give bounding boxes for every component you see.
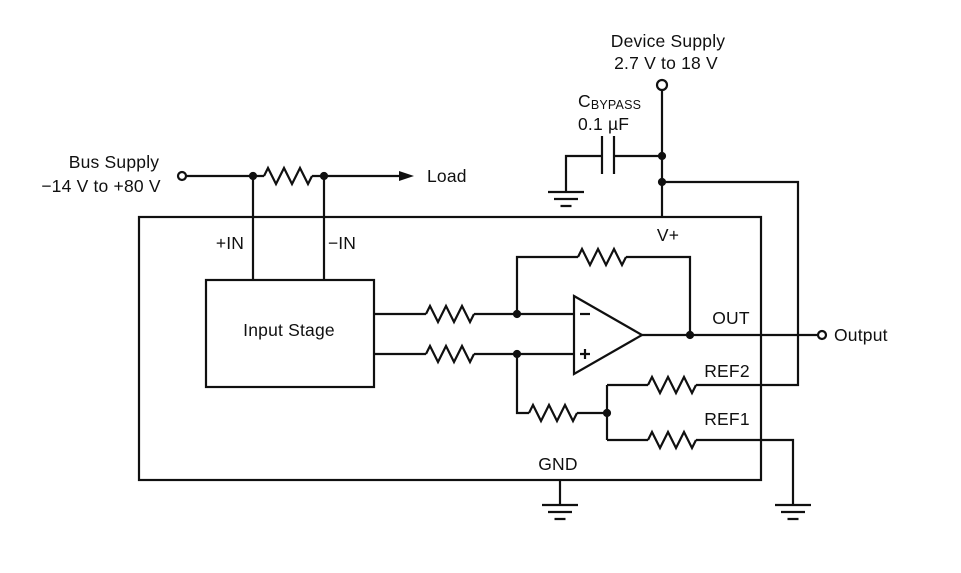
svg-text:V+: V+ (657, 225, 679, 245)
terminal: Bus Supply input (178, 172, 186, 180)
node: minus input (513, 310, 521, 318)
label: +IN (216, 233, 244, 253)
label: Output (834, 325, 888, 345)
wire: feedback right leg (626, 257, 690, 335)
label: 2.7 V to 18 V (614, 53, 718, 73)
wire: ref junction vertical (606, 385, 608, 440)
block: Input Stage (206, 280, 374, 387)
node: -IN bus junction (320, 172, 328, 180)
label: REF1 (704, 409, 750, 429)
svg-text:+IN: +IN (216, 233, 244, 253)
wire: Rref to ref junction (577, 412, 607, 414)
svg-text:Device Supply: Device Supply (611, 31, 726, 51)
svg-text:Input Stage: Input Stage (243, 320, 335, 340)
wire: R- to op-amp minus (474, 313, 574, 315)
node: REF junction (603, 409, 611, 417)
node: plus input (513, 350, 521, 358)
label: OUT (712, 308, 750, 328)
label: Load (427, 166, 467, 186)
svg-text:0.1 µF: 0.1 µF (578, 114, 629, 134)
svg-text:−14 V to +80 V: −14 V to +80 V (41, 176, 161, 196)
wire: shunt to load arrow (312, 175, 401, 177)
svg-text:2.7 V to 18 V: 2.7 V to 18 V (614, 53, 718, 73)
ground: GND pin (542, 505, 578, 519)
label: C_BYPASS (578, 91, 641, 112)
resistor: Rref (529, 405, 577, 421)
wire: REF1 to ground (696, 440, 793, 505)
wire: REF2 left lead (607, 384, 648, 386)
terminal: Output (818, 331, 826, 339)
ground: bypass cap (548, 192, 584, 206)
wire: input stage to R+ (374, 353, 426, 355)
wire: plus node down to Rref (517, 354, 529, 413)
wire: cap left lead to ground (566, 156, 602, 192)
wire: op-amp output to Output terminal (642, 334, 818, 336)
wire: cap right lead (614, 155, 662, 157)
svg-text:−IN: −IN (328, 233, 356, 253)
label: Bus Supply (69, 152, 160, 172)
wire: supply down to V+ (661, 90, 663, 217)
capacitor C_BYPASS plates (602, 136, 614, 174)
svg-text:GND: GND (538, 454, 578, 474)
op-amp minus sign (580, 313, 590, 315)
label: GND (538, 454, 578, 474)
device outline box (139, 217, 761, 480)
svg-text:CBYPASS: CBYPASS (578, 91, 641, 112)
resistor: R- input (426, 306, 474, 322)
arrowhead: load (399, 171, 414, 181)
wire: R+ to op-amp plus (474, 353, 574, 355)
wire: GND pin stem (559, 480, 561, 505)
node: +IN bus junction (249, 172, 257, 180)
op-amp plus sign (580, 349, 590, 359)
wire: REF2 to V+ branch (662, 182, 798, 385)
label: REF2 (704, 361, 750, 381)
svg-text:REF2: REF2 (704, 361, 750, 381)
resistor: feedback (578, 249, 626, 265)
resistor: R+ input (426, 346, 474, 362)
ground: REF1 (775, 505, 811, 519)
node: bypass cap junction (658, 152, 666, 160)
wire: +IN sense line (252, 176, 254, 280)
svg-text:Bus Supply: Bus Supply (69, 152, 160, 172)
node: V+ branch junction (658, 178, 666, 186)
svg-text:REF1: REF1 (704, 409, 750, 429)
wire: REF1 left lead (607, 439, 648, 441)
label: Input Stage (243, 320, 335, 340)
wire: feedback left leg (517, 257, 578, 314)
wire: -IN sense line (323, 176, 325, 280)
label: Device Supply (611, 31, 726, 51)
resistor: REF1 (648, 432, 696, 448)
svg-text:OUT: OUT (712, 308, 750, 328)
svg-text:Load: Load (427, 166, 467, 186)
wire: input stage to R- (374, 313, 426, 315)
terminal: Device Supply (657, 80, 667, 90)
wire: bus supply to shunt (186, 175, 264, 177)
label: -14 V to +80 V (41, 176, 161, 196)
resistor: REF2 (648, 377, 696, 393)
op-amp U1 (574, 296, 642, 374)
label: -IN (328, 233, 356, 253)
resistor: shunt (bus) (264, 168, 312, 184)
label: 0.1 uF (578, 114, 629, 134)
label: V+ (657, 225, 679, 245)
node: OUT feedback junction (686, 331, 694, 339)
svg-text:Output: Output (834, 325, 888, 345)
